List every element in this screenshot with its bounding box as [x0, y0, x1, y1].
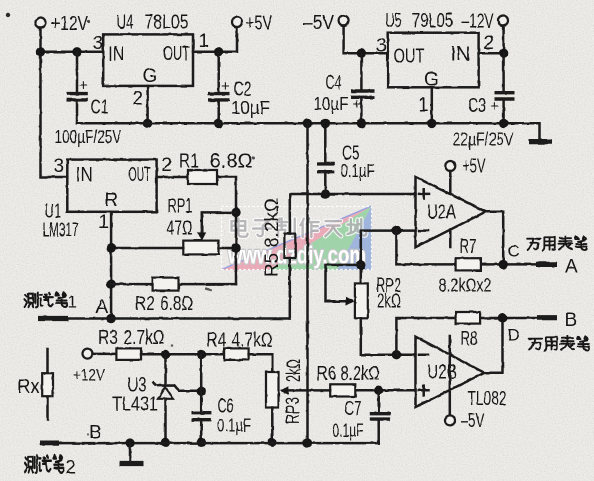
- svg-text:C6: C6: [218, 396, 234, 418]
- junction dot RP1 right: [231, 243, 240, 252]
- svg-text:OUT: OUT: [163, 43, 190, 65]
- svg-text:+: +: [491, 98, 500, 115]
- junction dot C2 on bus: [214, 119, 223, 128]
- op-amp U2A: [416, 177, 486, 247]
- svg-text:C: C: [508, 242, 520, 261]
- resistor R4 4.7k: [224, 348, 249, 360]
- label R6 8.2k: [317, 363, 380, 385]
- svg-text:8.2kΩx2: 8.2kΩx2: [439, 276, 492, 296]
- junction dot RP2 wiper tap: [356, 260, 365, 269]
- label R8: [461, 328, 478, 350]
- label R4 4.7k: [207, 330, 273, 352]
- wire U2A V+ pin: [449, 171, 452, 247]
- resistor R8: [456, 312, 481, 324]
- label test pen 1: [24, 292, 77, 311]
- capacitor C2 10uF: [208, 52, 270, 124]
- ground symbol bottom: [120, 443, 144, 463]
- terminal +12V bottom: [73, 349, 106, 385]
- svg-text:C1: C1: [91, 97, 109, 119]
- junction dot C4 tap: [357, 49, 366, 58]
- svg-text:R6: R6: [317, 363, 337, 385]
- capacitor C1 100uF/25V electrolytic: [67, 52, 109, 124]
- svg-text:+5V: +5V: [463, 156, 486, 178]
- watermark hypotenuse edge: [222, 206, 372, 270]
- regulator U5 79L05: [388, 33, 479, 91]
- svg-text:R3: R3: [98, 327, 118, 349]
- label R1 6.8ohm: [179, 151, 253, 173]
- svg-text:U5: U5: [386, 10, 402, 32]
- wire U1 R pin down to node A: [110, 212, 113, 319]
- svg-text:0.1µF: 0.1µF: [341, 161, 375, 181]
- wire +12V to U4 IN: [41, 51, 104, 54]
- wire U5 G to ground bus: [431, 87, 434, 123]
- junction dot C3 on bus: [499, 119, 508, 128]
- pin 1 U4: [199, 31, 210, 52]
- potentiometer RP1 47ohm body: [183, 241, 218, 255]
- junction dot U3 bottom: [161, 438, 170, 447]
- svg-text:3: 3: [376, 36, 387, 57]
- junction dot C7 tap: [374, 386, 383, 395]
- junction dot R2 left: [106, 279, 115, 288]
- svg-text:+12V: +12V: [73, 366, 106, 385]
- svg-text:3: 3: [54, 156, 65, 177]
- wire -12V to U5 IN: [479, 26, 504, 54]
- capacitor C3 22uF/25V: [468, 53, 515, 123]
- wire -5V to U5 OUT: [344, 26, 388, 54]
- svg-text:3: 3: [93, 33, 104, 54]
- svg-text:–5V: –5V: [461, 410, 485, 432]
- wire RP2 wiper loop: [326, 265, 361, 306]
- watermark green band: [268, 206, 372, 270]
- label 8.2kx2: [439, 276, 492, 296]
- shunt regulator U3 TL431: [153, 354, 202, 442]
- resistor Rx under test: [42, 349, 53, 420]
- junction dot C2 tap: [214, 47, 223, 56]
- label U1 LM317: [43, 201, 79, 242]
- junction dot ground stub: [125, 438, 134, 447]
- resistor R3 2.7k: [116, 348, 141, 360]
- svg-text:RP1: RP1: [168, 196, 193, 218]
- wire RP1 wiper: [197, 212, 236, 241]
- regulator U1 LM317: [67, 160, 156, 212]
- wire mid ground link: [306, 123, 309, 443]
- junction dot C5 on bus: [321, 119, 330, 128]
- test pen 2 terminal line B: [40, 441, 379, 446]
- svg-text:IN: IN: [76, 164, 93, 186]
- test pen 1 terminal: [38, 316, 290, 321]
- svg-text:RP3: RP3: [283, 397, 304, 424]
- node label D: [508, 326, 520, 345]
- wire U2A inverting input to RP2 top: [361, 231, 416, 284]
- wire R4 to RP3: [249, 354, 273, 372]
- label U5 79L05: [386, 10, 454, 32]
- svg-text:10µF: 10µF: [231, 98, 270, 118]
- label R3 2.7k: [98, 327, 165, 349]
- junction dot node A: [106, 314, 115, 323]
- svg-text:47Ω: 47Ω: [167, 218, 193, 240]
- wire RP1 left to U1 R: [111, 247, 183, 250]
- svg-text:R2: R2: [135, 293, 155, 315]
- terminal -5V top: [303, 12, 349, 34]
- label RP1 47ohm: [167, 196, 193, 240]
- svg-text:78L05: 78L05: [145, 12, 189, 34]
- svg-text:10µF: 10µF: [314, 94, 349, 114]
- junction dot C4 on bus: [357, 119, 366, 128]
- svg-text:Rx: Rx: [18, 376, 40, 398]
- junction dot R pin / RP1: [106, 243, 115, 252]
- junction dot U2B inverting: [392, 350, 401, 359]
- wire U4 G to ground bus: [146, 86, 149, 123]
- label multimeter pen top: [527, 236, 587, 250]
- svg-text:R7: R7: [460, 236, 477, 258]
- value label 22uF/25V: [453, 130, 514, 150]
- pin 3 U1: [54, 156, 65, 177]
- junction dot C1 tap: [72, 47, 81, 56]
- capacitor C4 10uF: [314, 53, 375, 123]
- svg-text:OUT: OUT: [129, 164, 151, 186]
- svg-text:2: 2: [484, 33, 495, 54]
- svg-text:79L05: 79L05: [412, 10, 453, 32]
- junction dot TL431 ref: [197, 387, 206, 396]
- label R2 6.8ohm: [135, 293, 193, 315]
- svg-text:4.7kΩ: 4.7kΩ: [232, 330, 273, 352]
- svg-text:A: A: [96, 297, 109, 318]
- svg-text:–5V: –5V: [303, 12, 335, 34]
- terminal +5V U2A: [445, 156, 486, 178]
- junction dot C6 bottom: [197, 438, 206, 447]
- pin 2 U5: [484, 33, 495, 54]
- svg-text:IN: IN: [108, 44, 124, 66]
- junction dot R1 node upper: [231, 208, 240, 217]
- wire RP2 bottom to U2B inverting: [361, 318, 416, 354]
- junction dot +12V rail: [36, 47, 45, 56]
- wire +12V to R3: [93, 353, 117, 356]
- svg-text:B: B: [565, 310, 578, 331]
- svg-text:TL431: TL431: [112, 394, 158, 416]
- resistor R6 8.2k: [280, 384, 356, 396]
- pin 2 U4: [133, 89, 144, 110]
- watermark pink band: [222, 206, 372, 270]
- label R5 8.2k rotated: [262, 198, 283, 277]
- svg-text:C4: C4: [326, 72, 342, 94]
- label Rx: [18, 376, 40, 398]
- potentiometer RP2 2k body: [355, 283, 368, 318]
- svg-text:2.7kΩ: 2.7kΩ: [124, 327, 165, 349]
- junction dot C6 top: [197, 350, 206, 359]
- capacitor C6 0.1uF: [192, 354, 252, 442]
- watermark blue triangle: [337, 206, 372, 270]
- op-amp U2B: [416, 337, 485, 407]
- terminal -5V U2B: [445, 410, 485, 432]
- svg-text:A: A: [565, 257, 578, 278]
- node label A: [96, 297, 109, 318]
- wire U4 OUT to +5V: [193, 27, 237, 52]
- svg-text:+: +: [353, 96, 362, 113]
- ground bus top: [77, 123, 540, 139]
- node label C: [508, 242, 520, 261]
- junction dot C3 tap: [499, 49, 508, 58]
- svg-text:22µF/25V: 22µF/25V: [453, 130, 514, 150]
- wire R7 branch from U2A inverting: [396, 231, 535, 265]
- svg-text:1: 1: [418, 95, 429, 116]
- label R7: [460, 236, 477, 258]
- svg-text:TL082: TL082: [468, 388, 507, 410]
- junction dot mid line on bus: [303, 119, 312, 128]
- wire R3 to R4: [141, 353, 224, 356]
- watermark url text: [227, 242, 366, 270]
- value label 100uF/25V: [55, 127, 122, 147]
- svg-text:B: B: [89, 423, 102, 444]
- pin 3 U5: [376, 36, 387, 57]
- capacitor C7 0.1uF: [333, 390, 391, 443]
- svg-text:2kΩ: 2kΩ: [377, 291, 401, 313]
- svg-text:6.8Ω: 6.8Ω: [210, 151, 253, 173]
- svg-text:1: 1: [199, 31, 210, 52]
- label TL082: [468, 388, 507, 410]
- label multimeter pen bottom: [529, 336, 589, 350]
- capacitor C5 0.1uF: [317, 123, 375, 194]
- resistor R1 6.8ohm: [188, 170, 217, 184]
- resistor R2 6.8ohm: [111, 278, 236, 291]
- svg-text:6.8Ω: 6.8Ω: [160, 293, 193, 315]
- junction dot U2A output node C: [499, 260, 508, 269]
- svg-text:–12V: –12V: [462, 11, 494, 33]
- potentiometer RP3 2k body: [266, 372, 279, 408]
- junction dot U4 G on bus: [143, 119, 152, 128]
- svg-text:G: G: [143, 66, 158, 87]
- svg-text:U4: U4: [117, 12, 134, 34]
- svg-text:C3: C3: [468, 95, 486, 117]
- label test pen 2: [25, 455, 76, 479]
- svg-text:2: 2: [162, 155, 173, 176]
- svg-text:R8: R8: [461, 328, 478, 350]
- wire RP3 bottom to B line: [271, 408, 274, 443]
- svg-text:C7: C7: [345, 398, 362, 420]
- svg-text:U2B: U2B: [427, 362, 457, 384]
- wire U2A output feedback: [486, 212, 504, 265]
- svg-text:8.2kΩ: 8.2kΩ: [341, 363, 380, 385]
- svg-text:1: 1: [99, 212, 110, 233]
- svg-text:IN: IN: [451, 44, 471, 66]
- pin 1 U1: [99, 212, 110, 233]
- ground symbol top-right: [529, 139, 552, 144]
- junction dot U3 top: [161, 350, 170, 359]
- svg-text:R4: R4: [207, 330, 227, 352]
- svg-text:R5 8.2kΩ: R5 8.2kΩ: [262, 198, 283, 277]
- wire R8 branch from U2B inverting: [396, 318, 536, 355]
- svg-text:100µF/25V: 100µF/25V: [55, 127, 122, 147]
- terminal +12V top-left: [36, 13, 89, 35]
- label RP2 2k: [376, 275, 401, 313]
- label RP3 2k rotated: [283, 359, 305, 424]
- svg-text:+5V: +5V: [246, 13, 273, 35]
- svg-text:2: 2: [66, 458, 77, 479]
- scan speck marks: [6, 13, 255, 436]
- label U3 TL431: [112, 375, 158, 416]
- terminal multimeter pen A: [536, 257, 578, 278]
- svg-text:+: +: [221, 78, 230, 95]
- junction dot mid line on B: [303, 438, 312, 447]
- wire RP1 right to node: [219, 247, 237, 250]
- label U4 78L05: [117, 12, 189, 34]
- pin 1 U5: [418, 95, 429, 116]
- junction dot U2B output node D: [498, 313, 507, 322]
- resistor R7: [456, 258, 481, 270]
- junction dot C5 bottom: [321, 189, 330, 198]
- svg-text:2kΩ: 2kΩ: [284, 359, 305, 382]
- wire U1 OUT through R1 to node: [157, 177, 236, 284]
- svg-text:0.1µF: 0.1µF: [217, 416, 251, 436]
- svg-text:D: D: [508, 326, 520, 345]
- svg-text:R1: R1: [179, 151, 199, 173]
- pin 3 U4: [93, 33, 104, 54]
- wire U2B non-inverting input: [355, 389, 415, 392]
- svg-text:OUT: OUT: [394, 46, 425, 68]
- node label B: [89, 423, 102, 444]
- wire U2B output feedback: [485, 318, 503, 373]
- pin 2 U1: [162, 155, 173, 176]
- watermark dashed selection border: [222, 207, 372, 270]
- svg-text:R: R: [105, 190, 119, 211]
- svg-text:2: 2: [133, 89, 144, 110]
- svg-text:0.1µF: 0.1µF: [333, 421, 364, 441]
- svg-text:+12V: +12V: [51, 13, 89, 35]
- terminal multimeter pen B: [537, 310, 577, 331]
- wire U2B V- pin: [449, 336, 452, 415]
- resistor R5 8.2k vertical: [284, 194, 415, 319]
- svg-text:+: +: [79, 77, 88, 94]
- wire +12V rail down to U1 IN: [41, 28, 68, 178]
- terminal -12V: [462, 11, 509, 33]
- junction dot U5 G on bus: [427, 119, 436, 128]
- junction dot U2A inverting: [392, 226, 401, 235]
- svg-text:U2A: U2A: [427, 202, 456, 224]
- watermark text dzdiy big: [232, 218, 367, 237]
- terminal +5V: [232, 13, 273, 35]
- svg-text:LM317: LM317: [43, 220, 79, 242]
- svg-text:1: 1: [68, 293, 77, 312]
- junction dot RP3 bottom: [268, 438, 277, 447]
- regulator U4 78L05: [103, 34, 193, 87]
